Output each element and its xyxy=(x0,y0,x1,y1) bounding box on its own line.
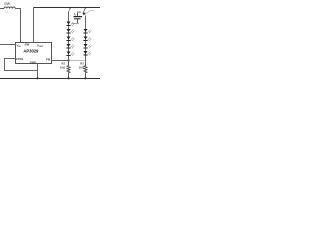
svg-text:SW: SW xyxy=(25,43,30,47)
wire VOUT pin up to top rail xyxy=(33,8,35,43)
wire branch to left LED string xyxy=(69,8,71,12)
diode blob top of right string xyxy=(82,13,85,16)
wire top rail VOUT net xyxy=(34,7,101,9)
wire diag mark left of C2 xyxy=(74,13,75,15)
wire inductor to SW corner xyxy=(15,9,20,43)
LED arrows right string top xyxy=(84,10,94,15)
inductor L1 xyxy=(4,7,15,9)
LED D9 xyxy=(83,51,91,56)
capacitor C2 bottom lead xyxy=(77,19,79,23)
wire CTRL pin loop xyxy=(5,59,38,71)
LED D7 xyxy=(83,37,91,42)
wire FB pin to resistor tops xyxy=(52,60,69,62)
resistor R2 xyxy=(84,65,87,79)
node R2 ground dot xyxy=(84,77,86,79)
wire bottom ground rail xyxy=(0,78,100,80)
capacitor C2 top lead xyxy=(77,13,79,16)
wire VIN pin to left edge xyxy=(0,44,16,46)
capacitor C2 plates xyxy=(74,16,83,17)
ground symbol under C2 xyxy=(72,22,80,25)
svg-text:22µH: 22µH xyxy=(4,1,10,5)
LED D8 xyxy=(83,44,91,49)
resistor R1 xyxy=(67,65,70,79)
wire FB net to right string xyxy=(69,60,86,62)
svg-text:CTRL: CTRL xyxy=(16,57,24,61)
LED D1 xyxy=(66,22,74,27)
op IC U1 AP3029 box xyxy=(16,43,52,64)
node FB junction dot xyxy=(67,59,69,61)
node GND junction dot xyxy=(36,77,38,79)
svg-text:GND: GND xyxy=(30,60,36,64)
wire GND pin down xyxy=(37,64,39,79)
wire input to inductor xyxy=(0,8,4,10)
wire left LED string xyxy=(68,12,70,66)
LED D4 xyxy=(66,44,74,49)
LED D3 xyxy=(66,37,74,42)
wire branch to right LED string xyxy=(83,8,85,14)
svg-text:AP3029: AP3029 xyxy=(23,48,39,53)
LED D5 xyxy=(66,52,74,57)
LED D6 xyxy=(83,29,91,34)
node VOUT rail left dot xyxy=(69,7,71,9)
node R1 ground dot xyxy=(67,77,69,79)
LED D2 xyxy=(66,29,74,34)
wire right LED string xyxy=(85,16,87,66)
svg-text:10Ω: 10Ω xyxy=(60,66,66,70)
node VOUT rail right dot xyxy=(84,7,86,9)
